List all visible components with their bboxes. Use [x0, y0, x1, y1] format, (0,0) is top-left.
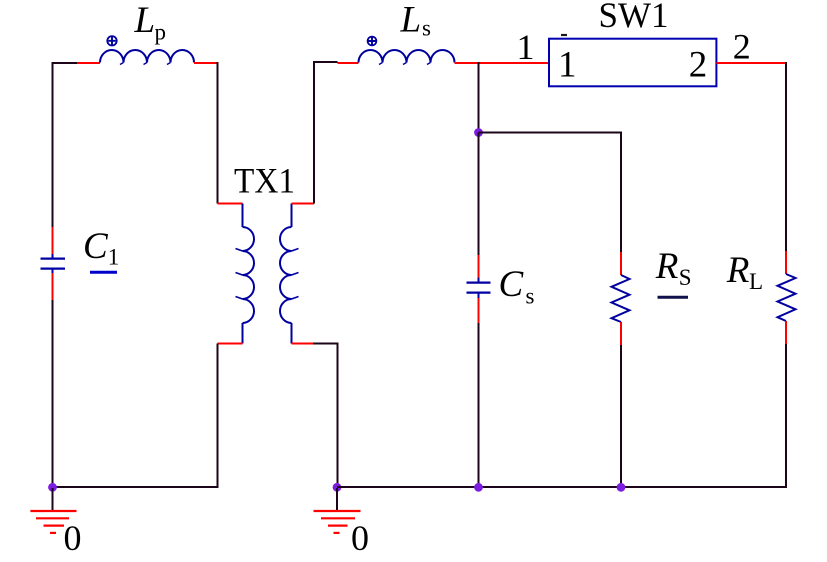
svg-text:1: 1 [108, 245, 120, 270]
wire Cs branch vertical upper [478, 62, 480, 133]
transformer TX1 [218, 204, 315, 344]
value underline of C1 [90, 271, 117, 274]
resistor RL [778, 251, 796, 344]
wire junction to RS branch [479, 133, 622, 253]
wire TX1 primary bottom vertical [217, 344, 219, 489]
ground 0 left [30, 488, 76, 533]
label 0 left [64, 518, 82, 558]
pin wire SW1 right [716, 62, 786, 64]
phase dot of Ls [368, 37, 377, 46]
svg-text:1: 1 [517, 27, 535, 67]
wire left vertical lower [52, 300, 54, 487]
label pin 2 [733, 27, 751, 67]
wire bottom-right horizontal [337, 486, 787, 488]
svg-text:2: 2 [733, 27, 751, 67]
wire Cs branch vertical lower [478, 323, 480, 487]
svg-text:C: C [83, 226, 109, 267]
label C1 [83, 226, 119, 270]
wire RL branch vertical upper [785, 62, 787, 251]
label Ls [400, 0, 432, 41]
label SW1 [599, 0, 669, 35]
svg-text:R: R [726, 250, 750, 291]
node ground-right junction [333, 483, 342, 492]
svg-text:0: 0 [351, 518, 369, 558]
svg-text:R: R [655, 246, 679, 287]
wire left vertical upper [52, 62, 54, 227]
wire Cs branch vertical middle [478, 133, 480, 256]
capacitor C1 [41, 227, 66, 300]
wire top-left horizontal [53, 62, 78, 64]
svg-text:TX1: TX1 [234, 160, 295, 200]
label RS [655, 246, 692, 290]
pin wire Lp right [194, 62, 218, 64]
svg-text:C: C [499, 264, 525, 305]
node Cs bottom junction [474, 483, 483, 492]
label Cs [499, 264, 535, 309]
svg-text:L: L [400, 0, 422, 41]
inductor Lp [100, 50, 194, 65]
wire Ls to SW1 [455, 62, 550, 64]
wire TX1 primary top vertical [217, 62, 219, 204]
label Lp [134, 0, 167, 45]
svg-text:s: s [422, 16, 431, 41]
svg-text:S: S [679, 265, 692, 290]
resistor RS [612, 252, 630, 345]
label RL [726, 250, 763, 294]
svg-text:SW1: SW1 [599, 0, 669, 35]
svg-text:0: 0 [64, 518, 82, 558]
wire RL branch lower [785, 344, 787, 487]
svg-text:p: p [155, 20, 167, 45]
inductor Ls [359, 50, 455, 65]
phase dot of Lp [107, 36, 116, 45]
label TX1 [234, 160, 295, 200]
node RS bottom junction [617, 483, 626, 492]
node ground-left junction [48, 483, 57, 492]
pin wire Lp left [77, 62, 100, 64]
ground 0 right [314, 488, 361, 533]
wire RS branch lower [620, 345, 622, 487]
wire TX1 secondary bottom [313, 344, 338, 488]
switch SW1 [549, 35, 716, 86]
value underline of RS [658, 296, 689, 299]
node Cs-RS junction [474, 128, 483, 137]
svg-text:L: L [749, 269, 763, 294]
svg-text:1: 1 [558, 45, 577, 86]
svg-text:s: s [526, 284, 535, 309]
wire bottom-left horizontal [53, 486, 219, 488]
label pin 1 [517, 27, 535, 67]
pin wire Ls left [338, 62, 359, 64]
label 0 right [351, 518, 369, 558]
svg-text:2: 2 [689, 45, 708, 86]
svg-text:L: L [134, 0, 156, 41]
wire TX1 secondary top vertical [314, 62, 338, 204]
capacitor Cs [467, 255, 491, 323]
